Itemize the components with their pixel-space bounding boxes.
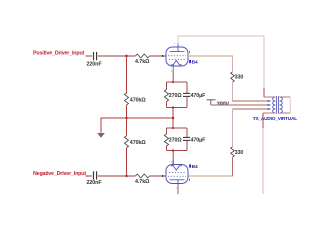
- wire R3 to bus: [126, 105, 128, 119]
- block top wire: [167, 81, 188, 83]
- capacitor C1 plates: [94, 52, 97, 60]
- wire C2 to node B: [98, 175, 127, 177]
- model label V1: [189, 60, 191, 63]
- pin tick V2 g2: [189, 179, 191, 182]
- svg-text:4.7kΩ: 4.7kΩ: [135, 59, 150, 65]
- arrow pin 2: [267, 104, 271, 106]
- grid pin dot V2: [162, 175, 164, 177]
- wire screen tap 1: [233, 100, 268, 102]
- svg-text:TS_AUDIO_VIRTUAL: TS_AUDIO_VIRTUAL: [253, 116, 297, 122]
- grid dashes row 1 V2: [169, 171, 185, 173]
- junction node A: [125, 55, 127, 57]
- resistor R8 zigzag 270: [164, 134, 168, 146]
- left leg top: [166, 82, 168, 90]
- svg-text:300V: 300V: [217, 101, 230, 107]
- capacitor C2 plates: [94, 171, 97, 179]
- primary bottom pin: [263, 112, 275, 114]
- wire V1 screen to 330: [188, 55, 233, 57]
- right leg top: [186, 128, 188, 137]
- wire input to C2: [86, 175, 93, 177]
- resistor R1 zigzag: [136, 54, 150, 58]
- junction block bottom: [172, 106, 174, 108]
- wire R6 to V2 screen rail: [232, 157, 234, 176]
- resistor R7 zigzag 270: [164, 90, 168, 102]
- ground symbol: [97, 133, 105, 138]
- cathode V1: [171, 60, 182, 64]
- grid pin dot V1: [162, 55, 164, 57]
- grid dashes row 2 V2: [168, 175, 186, 177]
- cathode lead V2: [172, 160, 174, 166]
- junction block top: [172, 127, 174, 129]
- envelope V1: [166, 47, 188, 66]
- grid dashes row 1 V1: [168, 55, 186, 57]
- svg-text:330: 330: [235, 150, 244, 156]
- wire block to V2 cathode: [172, 151, 174, 165]
- cathode lead V1: [172, 65, 174, 71]
- block bottom wire: [167, 107, 188, 109]
- junction bus-center: [172, 117, 174, 119]
- wire down to R6: [232, 109, 234, 147]
- junction bus-left: [125, 117, 127, 119]
- svg-text:470µF: 470µF: [191, 138, 207, 144]
- transformer T1 TS_AUDIO_VIRTUAL: [253, 96, 297, 122]
- envelope V2: [166, 165, 188, 184]
- secondary shorting wire: [289, 97, 291, 113]
- resistor R4 zigzag: [125, 136, 129, 148]
- wire R5 to screen tap: [232, 82, 234, 101]
- wire cathode V1 down: [172, 70, 174, 82]
- svg-text:470kΩ: 470kΩ: [130, 98, 147, 104]
- svg-text:470kΩ: 470kΩ: [130, 140, 147, 146]
- cathode V2: [171, 166, 182, 170]
- plate lead V1: [177, 44, 179, 52]
- resistor R6 zigzag 330: [231, 147, 235, 157]
- wire R2 to V2 grid: [150, 175, 167, 177]
- svg-text:270Ω: 270Ω: [169, 93, 183, 99]
- right leg top: [186, 82, 188, 93]
- svg-text:270Ω: 270Ω: [169, 138, 183, 144]
- svg-text:4.7kΩ: 4.7kΩ: [135, 179, 150, 185]
- vacuum tube V2: [166, 160, 198, 190]
- junction node B: [125, 175, 127, 177]
- power port 300V: [207, 100, 216, 105]
- left leg bottom: [166, 102, 168, 108]
- pin tick V1 g2: [189, 51, 191, 54]
- svg-text:Positive_Driver_Input: Positive_Driver_Input: [33, 51, 85, 57]
- resistor R5 zigzag 330: [231, 72, 235, 82]
- model label V2: [189, 164, 191, 167]
- plate bar V1: [170, 51, 185, 53]
- wire V1 plate up and over to transformer: [178, 36, 264, 88]
- primary coil: [273, 97, 276, 113]
- secondary coil: [280, 97, 283, 113]
- plate bar V2: [170, 179, 185, 181]
- svg-text:220nF: 220nF: [87, 61, 103, 67]
- svg-text:220nF: 220nF: [87, 180, 103, 186]
- core lines: [276, 96, 278, 114]
- junction cathode V1: [172, 81, 174, 83]
- wire block to bus: [172, 108, 174, 129]
- svg-text:B4: B4: [192, 164, 198, 170]
- svg-text:Negative_Driver_Input: Negative_Driver_Input: [33, 171, 86, 177]
- wire down to R5: [232, 56, 234, 72]
- wire input to C1: [86, 55, 93, 57]
- arrow pin 3: [267, 108, 271, 110]
- capacitor C4 plates 470µF: [183, 137, 190, 140]
- wire V2 screen: [188, 175, 233, 177]
- ground bus wire: [101, 118, 173, 133]
- RC network V2 cathode: [164, 127, 206, 164]
- left leg top: [166, 128, 168, 134]
- right leg bottom: [186, 96, 188, 107]
- wire transformer bottom to V2 plate (off-image): [262, 113, 264, 128]
- junction block bottom: [172, 149, 174, 151]
- wire V2 plate down off-image: [177, 188, 179, 194]
- svg-text:330: 330: [235, 75, 244, 81]
- block top wire: [167, 127, 188, 129]
- wire node B to R2: [127, 175, 136, 177]
- wire B+ to transformer: [211, 104, 267, 106]
- wire C1 to node A: [98, 55, 127, 57]
- arrow pin 1: [267, 100, 271, 102]
- plate lead V2: [177, 180, 179, 188]
- secondary bottom pin: [280, 112, 291, 114]
- resistor R4 470k bottom : wire bus down: [126, 118, 128, 136]
- resistor R3 zigzag: [125, 93, 129, 105]
- block bottom wire: [167, 150, 188, 152]
- wire R1 to V1 grid: [150, 55, 167, 57]
- RC network V1 cathode: [164, 70, 206, 128]
- left leg bottom: [166, 146, 168, 151]
- vacuum tube V1: [166, 42, 198, 74]
- grid dashes row 2 V1: [169, 59, 185, 61]
- wire node A to R1: [127, 55, 136, 57]
- resistor R3 470k top : wire node A down: [126, 56, 128, 93]
- resistor R2 zigzag: [136, 174, 150, 178]
- secondary top pin: [280, 96, 291, 98]
- svg-text:470µF: 470µF: [191, 93, 207, 99]
- svg-text:B4: B4: [192, 59, 198, 65]
- wire R4 to node B: [126, 148, 128, 177]
- right leg bottom: [186, 140, 188, 150]
- primary top pin: [264, 96, 275, 98]
- capacitor C3 plates 470µF: [183, 93, 190, 96]
- wire screen tap 2: [233, 108, 268, 110]
